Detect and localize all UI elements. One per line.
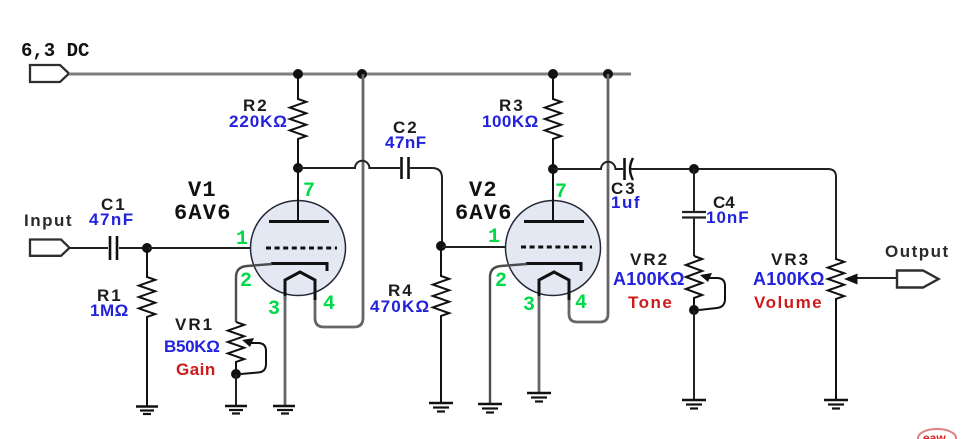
capacitor C2 <box>400 157 403 179</box>
V2 heater <box>539 272 569 300</box>
tag 6,3 DC <box>30 65 69 82</box>
resistor R2 <box>290 74 306 168</box>
svg-text:1: 1 <box>236 228 248 251</box>
wire V1 cathode pin2 to VR1 <box>236 264 272 322</box>
wire C1 to grid node <box>119 247 147 249</box>
svg-text:VR3: VR3 <box>771 250 810 269</box>
wire V2 cathode pin2 to ground <box>490 264 527 404</box>
wire input to C1 <box>69 247 108 249</box>
svg-text:A100KΩ: A100KΩ <box>613 269 685 289</box>
wiper VR3 wire to output <box>848 277 897 279</box>
svg-text:220KΩ: 220KΩ <box>229 112 288 131</box>
svg-text:Output: Output <box>885 242 950 261</box>
svg-text:A100KΩ: A100KΩ <box>753 269 825 289</box>
wire C4 to VR2 <box>693 218 695 256</box>
V1 heater <box>285 272 315 300</box>
capacitor C1 <box>109 236 112 260</box>
svg-text:1: 1 <box>488 226 500 249</box>
svg-text:Gain: Gain <box>176 360 216 379</box>
potentiometer VR1 <box>228 322 244 374</box>
V1 plate lead pin7 <box>297 168 299 221</box>
node grid1 <box>142 243 152 253</box>
svg-text:6AV6: 6AV6 <box>455 201 513 226</box>
resistor R3 <box>545 74 561 169</box>
resistor R1 <box>139 248 155 406</box>
potentiometer VR2 <box>686 256 702 310</box>
svg-text:3: 3 <box>268 298 280 321</box>
svg-text:7: 7 <box>303 180 315 203</box>
svg-text:4: 4 <box>323 293 335 316</box>
wiper VR2 <box>699 278 725 310</box>
capacitor C3 <box>623 158 626 180</box>
wire V1 pin3 to ground <box>284 296 287 406</box>
svg-text:VR2: VR2 <box>630 250 669 269</box>
ground R1 <box>136 407 158 415</box>
V2 plate <box>524 220 584 223</box>
svg-text:4: 4 <box>575 292 587 315</box>
resistor R4 <box>433 246 449 403</box>
svg-text:10nF: 10nF <box>706 208 750 227</box>
V2 plate lead pin7 <box>552 169 554 221</box>
svg-text:100KΩ: 100KΩ <box>482 112 539 131</box>
triode V2 envelope <box>506 201 601 296</box>
tag Output <box>897 271 939 288</box>
node grid2 <box>436 241 446 251</box>
ground V2 pin2 <box>478 404 502 413</box>
node VR1 bottom <box>231 369 241 379</box>
wire V1 heater pin4 to rail <box>315 74 363 327</box>
svg-text:1uf: 1uf <box>611 193 641 212</box>
wire V2 pin3 to ground <box>538 296 541 393</box>
ground V1 pin3 <box>273 406 295 414</box>
svg-text:6,3 DC: 6,3 DC <box>21 40 89 62</box>
V1 grid dashed <box>266 247 337 250</box>
svg-text:Tone: Tone <box>628 293 673 312</box>
wire VR2 to ground <box>693 310 695 400</box>
svg-text:1MΩ: 1MΩ <box>90 301 129 320</box>
svg-text:Input: Input <box>24 211 73 230</box>
tag Input <box>30 240 70 256</box>
wire C3 to VR3 corner <box>631 169 836 258</box>
ground V2 pin3 <box>527 393 551 402</box>
svg-text:2: 2 <box>240 270 252 293</box>
svg-text:V2: V2 <box>469 178 498 203</box>
capacitor C4 <box>682 211 706 213</box>
wire R3 node to C3 with hop <box>553 162 623 169</box>
svg-text:47nF: 47nF <box>385 133 427 152</box>
wire C2 to V2 grid node <box>410 168 442 246</box>
node rail-heater1 <box>357 69 367 79</box>
svg-text:470KΩ: 470KΩ <box>370 297 430 316</box>
svg-text:2: 2 <box>495 270 507 293</box>
svg-text:6AV6: 6AV6 <box>174 201 232 226</box>
node VR2 bottom <box>689 305 699 315</box>
ground VR1 <box>225 406 247 414</box>
V1 plate <box>269 220 329 223</box>
wiper VR1 <box>241 343 266 374</box>
V2 grid dashed <box>521 246 592 249</box>
svg-text:eaw: eaw <box>923 431 946 439</box>
svg-text:47nF: 47nF <box>89 210 135 229</box>
svg-text:B50KΩ: B50KΩ <box>164 337 220 356</box>
wire node to V2 grid <box>441 246 512 248</box>
ground VR2 <box>682 400 706 409</box>
wire VR1 to ground <box>235 374 237 406</box>
triode V1 envelope <box>251 201 346 296</box>
wire heater rail <box>69 73 631 76</box>
wire node to C4 <box>693 169 695 211</box>
potentiometer VR3 <box>828 258 844 400</box>
ground R4 <box>429 403 453 412</box>
svg-text:VR1: VR1 <box>175 315 214 334</box>
wire R2 node to C2 with hop <box>298 161 400 168</box>
node rail-heater2 <box>603 69 613 79</box>
svg-text:3: 3 <box>523 294 535 317</box>
node rail-R2 <box>293 69 303 79</box>
node rail-R3 <box>548 69 558 79</box>
node C3-C4 <box>689 164 699 174</box>
node R3-plate <box>548 164 558 174</box>
wire node to V1 grid <box>147 247 257 249</box>
ground VR3 <box>824 400 848 409</box>
wire V2 heater pin4 to rail <box>569 74 608 322</box>
V1 cathode <box>271 264 327 272</box>
logo eaw <box>918 429 956 439</box>
svg-text:Volume: Volume <box>754 293 823 312</box>
node R2-plate <box>293 163 303 173</box>
svg-text:7: 7 <box>555 181 567 204</box>
svg-text:V1: V1 <box>188 178 217 203</box>
V2 cathode <box>526 264 581 272</box>
